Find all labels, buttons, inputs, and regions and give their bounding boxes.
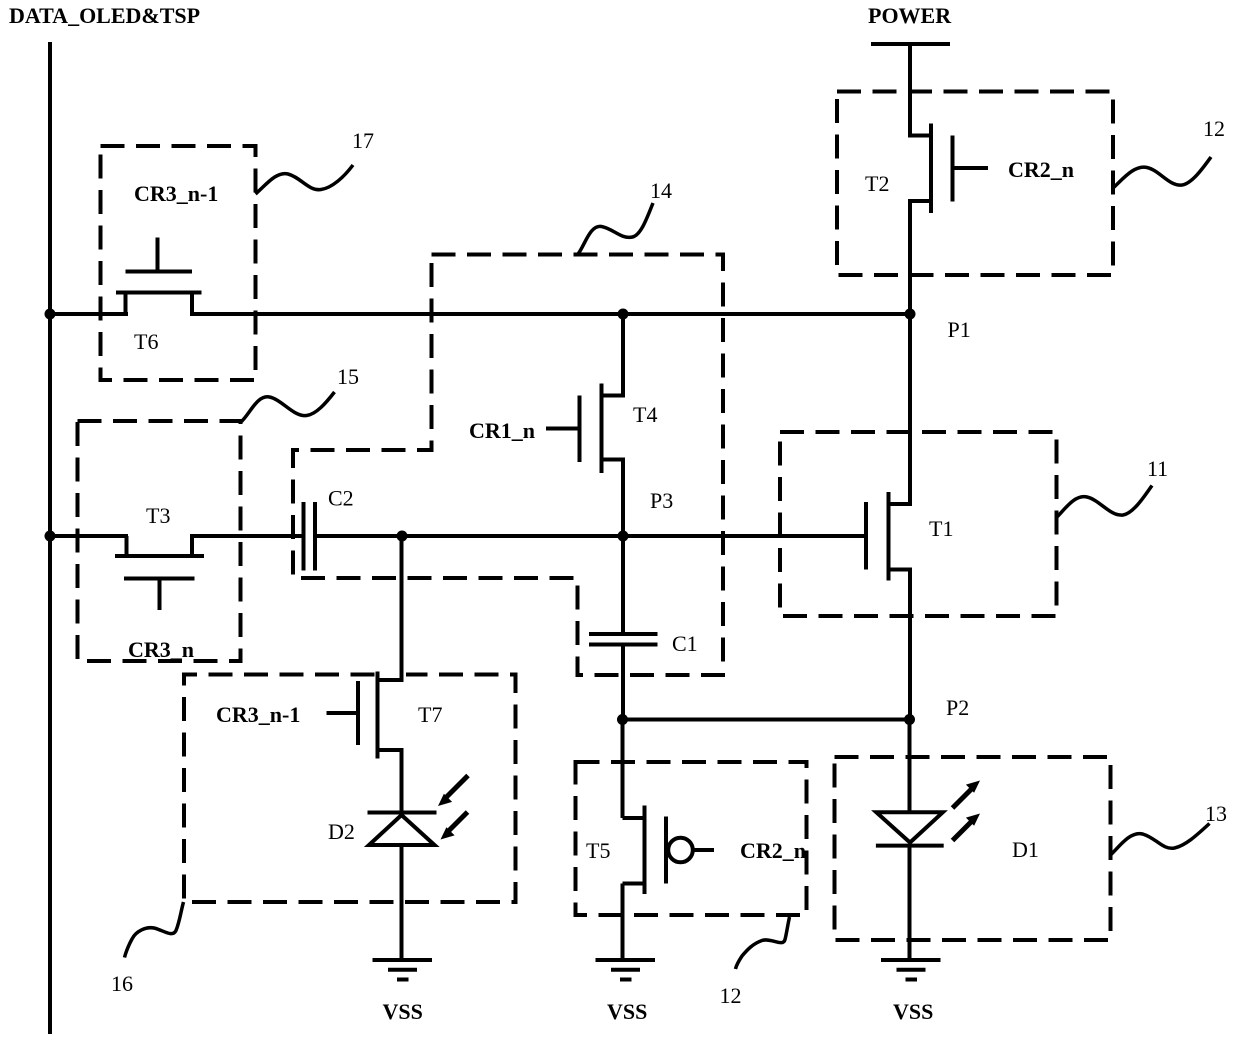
svg-text:DATA_OLED&TSP: DATA_OLED&TSP	[9, 3, 200, 28]
svg-text:CR2_n: CR2_n	[740, 838, 806, 863]
svg-text:14: 14	[650, 178, 672, 203]
gate label CR2_n for T2	[1008, 157, 1074, 182]
capacitor C1	[589, 631, 698, 656]
dashed block 16 around T7 D2	[184, 675, 516, 903]
wire row2 left to T3	[48, 534, 128, 538]
LED D1	[876, 781, 1039, 863]
node junction dot row1 left	[45, 309, 56, 320]
leader 16	[111, 902, 184, 996]
svg-text:C2: C2	[328, 486, 354, 511]
svg-text:T5: T5	[586, 838, 610, 863]
svg-text:P3: P3	[650, 488, 673, 513]
svg-text:12: 12	[1203, 116, 1225, 141]
svg-text:CR3_n-1: CR3_n-1	[216, 702, 300, 727]
leader 12 top	[1113, 116, 1225, 188]
power rail bar	[871, 42, 950, 46]
leader 12 bottom	[720, 917, 790, 1008]
dashed block 13 around D1	[835, 757, 1111, 940]
svg-text:T1: T1	[929, 516, 953, 541]
gate label CR2_n for T5	[740, 838, 806, 863]
wire row2 C2 to T1 gate	[317, 534, 866, 538]
dashed block 14 around T4 C1 C2	[293, 255, 723, 676]
svg-text:C1: C1	[672, 631, 698, 656]
svg-text:11: 11	[1147, 456, 1168, 481]
leader 17	[256, 128, 375, 194]
ground VSS under D2	[373, 960, 433, 1024]
wire node P3 to C1 top	[621, 536, 625, 632]
svg-text:VSS: VSS	[607, 999, 647, 1024]
wire T1 source to node P2	[908, 568, 912, 720]
wire row1 T6 to P1	[190, 312, 910, 316]
wire data line vertical	[48, 42, 52, 1034]
dashed block 17 around T6	[101, 146, 256, 380]
svg-text:T7: T7	[418, 702, 442, 727]
wire D1 to ground	[908, 846, 912, 961]
leader 14	[578, 178, 672, 254]
svg-text:D1: D1	[1012, 837, 1039, 862]
dashed block 15 around T3	[78, 421, 241, 661]
svg-text:CR3_n: CR3_n	[128, 637, 194, 662]
leader 15	[241, 364, 360, 423]
wire C1 bottom to row3	[621, 647, 625, 720]
node P2	[904, 695, 969, 725]
svg-text:15: 15	[337, 364, 359, 389]
svg-text:VSS: VSS	[893, 999, 933, 1024]
dashed block 11 around T1	[780, 432, 1057, 616]
svg-text:P1: P1	[948, 317, 971, 342]
transistor T1	[866, 492, 953, 581]
transistor T4	[546, 384, 657, 474]
svg-text:T2: T2	[865, 171, 889, 196]
leader 11	[1057, 456, 1169, 518]
transistor T5	[586, 806, 714, 895]
svg-text:13: 13	[1205, 801, 1227, 826]
gate label CR3_n for T3	[128, 637, 194, 662]
node junction dot row2 left	[45, 531, 56, 542]
wire node P1 to T1 drain	[908, 314, 912, 506]
wire node at row1 to T4 drain	[621, 314, 625, 398]
svg-text:12: 12	[720, 983, 742, 1008]
node P1	[905, 309, 971, 343]
dashed block 12 around T5	[576, 762, 807, 915]
transistor T2	[865, 124, 988, 214]
node junction dot row1 T4	[618, 309, 629, 320]
svg-text:T4: T4	[633, 402, 657, 427]
ground VSS under D1	[881, 960, 941, 1024]
wire row2 T3 to C2	[190, 534, 302, 538]
svg-text:P2: P2	[946, 695, 969, 720]
svg-text:16: 16	[111, 971, 133, 996]
ground VSS under T5	[596, 960, 656, 1024]
svg-text:CR2_n: CR2_n	[1008, 157, 1074, 182]
photodiode D2	[328, 776, 468, 846]
svg-text:17: 17	[352, 128, 374, 153]
svg-text:CR1_n: CR1_n	[469, 418, 535, 443]
wire row1 left to T6	[48, 312, 128, 316]
wire T5 source to ground	[621, 884, 625, 961]
transistor T6	[116, 238, 202, 355]
transistor T7	[327, 672, 443, 759]
wire row3 to T5 drain	[621, 720, 625, 819]
leader 13	[1111, 801, 1228, 855]
svg-text:D2: D2	[328, 819, 355, 844]
dashed block 12 around T2	[837, 92, 1113, 276]
svg-text:T3: T3	[146, 503, 170, 528]
svg-text:T6: T6	[134, 329, 158, 354]
node P3	[618, 488, 674, 542]
wire POWER to T2 drain	[908, 44, 912, 138]
gate label CR3_n-1 for T6	[134, 181, 218, 206]
wire T4 source to node P3	[621, 458, 625, 537]
wire P2 to D1	[908, 720, 912, 813]
node junction dot row3 left	[617, 714, 628, 725]
node junction dot row2 T7	[397, 531, 408, 542]
wire row2 node to T7 drain	[400, 536, 404, 682]
svg-text:VSS: VSS	[383, 999, 423, 1024]
gate label CR3_n-1 for T7	[216, 702, 300, 727]
wire D2 to ground	[400, 845, 404, 960]
svg-text:POWER: POWER	[868, 3, 952, 28]
node DATA_OLED&TSP label	[9, 3, 200, 28]
capacitor C2	[304, 486, 354, 571]
wire row3 P2 horizontal	[623, 718, 911, 722]
gate label CR1_n for T4	[469, 418, 535, 443]
transistor T3	[115, 503, 204, 610]
svg-text:CR3_n-1: CR3_n-1	[134, 181, 218, 206]
node POWER label	[868, 3, 952, 28]
wire T7 source to D2	[400, 748, 404, 812]
wire T2 source to node P1	[908, 199, 912, 314]
